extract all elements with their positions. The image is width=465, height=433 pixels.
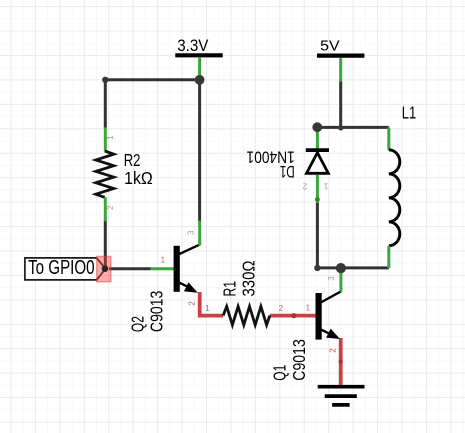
svg-text:L1: L1 [402,102,417,122]
svg-text:C9013: C9013 [289,339,309,381]
svg-text:R1: R1 [219,281,239,297]
svg-text:3: 3 [187,230,196,235]
svg-text:D1: D1 [280,162,295,180]
svg-text:Q2: Q2 [128,316,148,332]
svg-text:2: 2 [106,205,115,210]
svg-text:To GPIO0: To GPIO0 [28,257,95,279]
svg-text:1: 1 [323,182,328,191]
svg-text:R2: R2 [124,150,141,170]
svg-text:1: 1 [306,303,311,312]
svg-text:330Ω: 330Ω [239,261,259,297]
svg-text:2: 2 [279,304,284,313]
svg-text:1: 1 [106,135,115,140]
svg-text:2: 2 [187,301,196,306]
svg-text:1kΩ: 1kΩ [124,168,153,188]
svg-text:1: 1 [205,304,210,313]
svg-text:Q1: Q1 [269,365,289,381]
svg-text:1: 1 [161,256,166,265]
svg-text:3.3V: 3.3V [177,37,208,55]
svg-text:5V: 5V [320,37,340,54]
svg-text:C9013: C9013 [147,291,167,333]
svg-text:3: 3 [327,276,336,281]
svg-text:2: 2 [329,348,338,353]
svg-text:2: 2 [302,182,307,191]
